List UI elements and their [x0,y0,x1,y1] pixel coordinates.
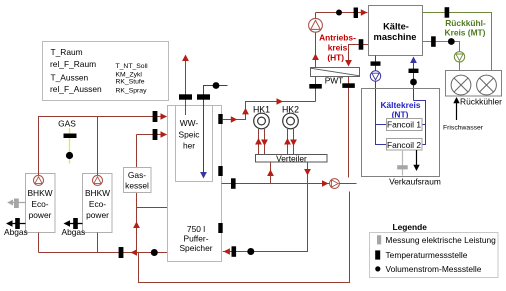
wire Verteiler return to tank [223,162,311,257]
svg-text:maschine: maschine [374,32,417,42]
tank temperature sensor bottom [218,223,222,233]
legend temperature bar [375,250,380,259]
pump Rueckkuehlkreis [454,52,464,62]
Abgas arrow BHKW2 [62,218,86,237]
svg-text:Puffer-: Puffer- [184,234,209,244]
svg-text:Messung elektrische Leistung: Messung elektrische Leistung [386,235,497,245]
svg-text:Eco-: Eco- [89,199,106,209]
pump BHKW1 [34,175,44,185]
svg-text:Kälte-: Kälte- [383,21,409,31]
wire main heating supply [222,178,357,189]
svg-text:kessel: kessel [125,181,149,191]
legend [370,222,499,278]
svg-text:HK1: HK1 [253,105,270,115]
wire BHKW supply manifold [39,111,168,122]
svg-text:T_Aussen: T_Aussen [51,73,89,83]
svg-text:Speicher: Speicher [179,243,212,253]
Abgas arrow BHKW1 [4,218,28,237]
BHKW 2 unit [83,174,113,233]
svg-text:Antriebs-: Antriebs- [319,33,356,43]
svg-text:kreis: kreis [328,43,348,53]
svg-text:T_Raum: T_Raum [51,47,83,57]
wire Kaeltekreis to fancoils (blue) [376,81,387,144]
svg-text:750 l: 750 l [187,224,205,234]
label Kaeltekreis [380,100,420,120]
svg-text:Volumenstrom-Messstelle: Volumenstrom-Messstelle [386,264,482,274]
signal parameter box [43,42,169,101]
wire riser BHKW2 supply [97,117,99,176]
svg-text:Kreis (MT): Kreis (MT) [445,28,486,38]
wire riser BHKW1 supply [38,117,40,176]
svg-text:Rückkühler: Rückkühler [460,97,502,107]
wire WW charge (red) [179,55,192,116]
svg-text:Gas-: Gas- [128,170,146,180]
svg-text:Fancoil 1: Fancoil 1 [387,120,421,130]
svg-text:Frischwasser: Frischwasser [443,125,484,132]
wire Rueckkuehl supply (green top) [423,7,492,70]
svg-text:BHKW: BHKW [85,188,110,198]
wire BHKW return line [39,233,168,259]
Kaeltemaschine chiller [369,6,423,56]
tank temperature sensor middle [218,166,222,176]
wire WW cold feed (blue) [197,82,228,178]
PWT plate heat exchanger [311,68,360,86]
GAS supply line [58,119,76,164]
legend volume flow dot [375,266,380,271]
Frischwasser feed arrow [443,97,484,132]
label Antriebskreis [319,33,356,63]
air flow arrow fancoil [413,150,419,171]
svg-text:RK_Spray: RK_Spray [116,88,148,95]
electrical measurement fancoils [397,150,408,176]
svg-text:Speic: Speic [179,130,200,140]
wire Verteiler feed [267,162,274,184]
svg-text:(HT): (HT) [327,53,344,63]
svg-text:Rückkühl-: Rückkühl- [445,18,486,28]
svg-text:PWT: PWT [325,75,344,85]
pump BHKW2 [93,175,103,185]
svg-text:Fancoil 2: Fancoil 2 [387,140,421,150]
Rueckkuehler dry cooler [446,71,503,107]
svg-text:Abgas: Abgas [62,227,86,237]
wire Kaeltekreis supply (blue, left stub) [371,56,381,72]
wire tank top to PWT (hot supply) [223,98,316,123]
label Rueckkuehl-Kreis [445,18,486,38]
750 l Puffer-Speicher tank [168,106,222,262]
Verteiler distributor [256,153,328,163]
svg-text:Verteiler: Verteiler [276,153,307,163]
svg-text:Kältekreis: Kältekreis [380,100,420,110]
svg-text:HK2: HK2 [282,105,299,115]
svg-text:Temperaturmessstelle: Temperaturmessstelle [386,250,468,260]
Fancoil 1 [387,119,423,131]
svg-text:rel_F_Aussen: rel_F_Aussen [50,84,102,94]
svg-text:Legende: Legende [393,222,428,232]
wire Antriebskreis return [342,39,368,177]
svg-text:power: power [86,210,109,220]
svg-text:rel_F_Raum: rel_F_Raum [50,59,96,69]
svg-text:power: power [29,210,52,220]
svg-text:her: her [183,141,195,151]
wire Kaeltekreis return (blue, right stub) [409,57,426,145]
wire Antriebskreis supply to Kaeltemaschine [316,8,368,19]
pump Kaeltekreis [370,71,380,81]
wire bottom return loop [139,192,350,283]
wire Rueckkuehl return (green) [423,36,460,70]
svg-text:RK_Stufe: RK_Stufe [116,79,145,86]
pump heating circuit [330,179,340,189]
Gaskessel boiler [124,129,168,253]
svg-text:KM_Zykl: KM_Zykl [116,72,143,79]
pump Antriebskreis [309,18,323,32]
svg-text:BHKW: BHKW [27,188,52,198]
svg-text:Verkaufsraum: Verkaufsraum [389,176,441,186]
tank temperature sensor top [218,114,222,124]
heating circuit HK1 [253,105,270,155]
electrical power measurement BHKW1 [7,199,25,209]
legend electrical bar [377,235,381,244]
WW-Speicher tank [176,106,213,182]
svg-text:GAS: GAS [58,119,76,129]
svg-text:T_NT_Soll: T_NT_Soll [116,63,149,70]
Verkaufsraum room box [362,89,441,187]
svg-text:WW-: WW- [180,118,199,128]
svg-text:Eco-: Eco- [31,199,48,209]
svg-text:Abgas: Abgas [4,227,28,237]
wire PWT primary riser [309,13,322,102]
BHKW 1 unit [26,174,56,233]
heating circuit HK2 [282,105,299,155]
Fancoil 2 [387,139,423,151]
